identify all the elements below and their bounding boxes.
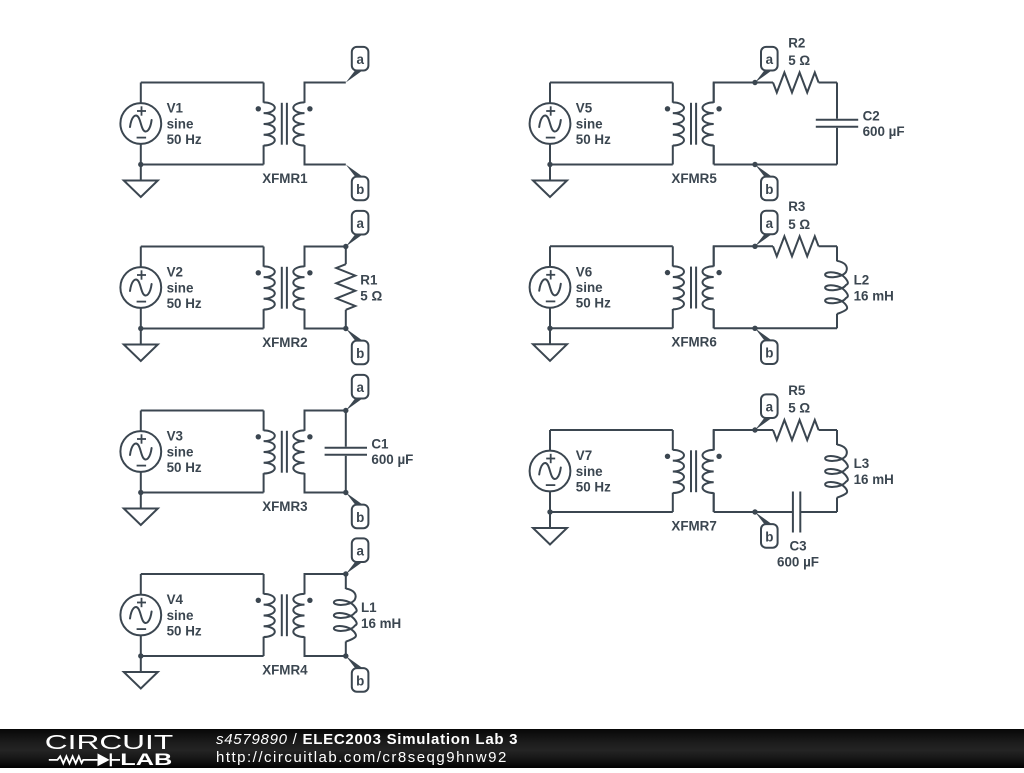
junction at ground <box>138 162 143 167</box>
ground <box>533 512 567 545</box>
svg-text:XFMR3: XFMR3 <box>262 499 307 514</box>
capacitor C2 (vertical) <box>816 83 858 165</box>
junction at ground <box>547 326 552 331</box>
wire top (source V3 to XFMR3) <box>141 410 264 412</box>
svg-text:a: a <box>356 380 364 395</box>
junction node a <box>343 244 348 249</box>
svg-text:a: a <box>766 52 774 67</box>
node b flag <box>755 165 778 201</box>
node b flag <box>346 165 369 201</box>
svg-text:a: a <box>766 400 774 415</box>
resistor R5 (horizontal) <box>755 420 837 440</box>
wire source top stub <box>140 411 142 432</box>
voltage source V3 <box>120 431 161 472</box>
ground <box>124 656 158 689</box>
svg-text:a: a <box>356 216 364 231</box>
ground <box>533 328 567 361</box>
voltage source V1 <box>120 103 161 144</box>
wire secondary top <box>305 247 346 267</box>
wire top (source V4 to XFMR4) <box>141 573 264 575</box>
svg-text:XFMR7: XFMR7 <box>671 518 716 533</box>
CircuitLab logo <box>0 729 200 769</box>
voltage source V5 <box>530 103 571 144</box>
wire source bottom stub <box>549 308 551 329</box>
wire bottom (node b to transformer) <box>714 511 755 513</box>
junction node b <box>752 162 757 167</box>
junction node a <box>343 408 348 413</box>
wire source top stub <box>549 83 551 104</box>
wire bottom right <box>755 164 837 166</box>
transformer XFMR1 <box>256 83 313 165</box>
node a flag <box>755 47 778 83</box>
svg-text:LAB: LAB <box>120 750 172 768</box>
junction at ground <box>547 509 552 514</box>
wire secondary bottom <box>305 637 346 656</box>
node b flag <box>346 493 369 529</box>
junction node b <box>752 326 757 331</box>
svg-text:XFMR1: XFMR1 <box>262 171 308 186</box>
wire secondary bottom <box>305 309 346 328</box>
wire source bottom stub <box>140 144 142 165</box>
voltage source V2 <box>120 267 161 308</box>
node b flag <box>755 328 778 364</box>
junction at ground <box>547 162 552 167</box>
voltage source V7 <box>530 451 571 492</box>
wire top (source V2 to XFMR2) <box>141 246 264 248</box>
wire secondary bottom <box>305 145 346 164</box>
wire bottom (source to transformer) <box>550 327 673 329</box>
transformer XFMR5 <box>665 83 722 165</box>
junction node b <box>343 326 348 331</box>
wire bottom (source to transformer) <box>141 328 264 330</box>
wire bottom (source to transformer) <box>141 164 264 166</box>
junction node a <box>752 80 757 85</box>
node a flag <box>755 211 778 247</box>
junction at ground <box>138 326 143 331</box>
junction at ground <box>138 490 143 495</box>
wire top (source V6 to XFMR6) <box>550 245 673 247</box>
junction at ground <box>138 653 143 658</box>
voltage source V4 <box>120 595 161 636</box>
wire secondary top <box>305 411 346 431</box>
transformer XFMR6 <box>665 246 722 328</box>
transformer XFMR7 <box>665 430 722 512</box>
node a flag <box>346 538 369 574</box>
svg-text:a: a <box>766 216 774 231</box>
wire source bottom stub <box>549 144 551 165</box>
svg-text:b: b <box>765 529 773 544</box>
wire secondary top <box>305 83 346 103</box>
inductor L2 (vertical) <box>825 246 848 328</box>
wire bottom (source to transformer) <box>550 511 673 513</box>
wire secondary top <box>305 574 346 594</box>
svg-text:b: b <box>356 673 364 688</box>
wire bottom (source to transformer) <box>141 492 264 494</box>
wire bottom (source to transformer) <box>550 164 673 166</box>
capacitor C3 (horizontal) <box>755 492 837 533</box>
footer url line 2 <box>216 750 508 766</box>
wire source bottom stub <box>140 635 142 656</box>
transformer XFMR4 <box>256 574 313 656</box>
ground <box>124 329 158 362</box>
wire bottom right <box>755 327 837 329</box>
node b flag <box>346 329 369 365</box>
node b flag <box>755 512 778 548</box>
resistor R1 (vertical) <box>336 247 355 329</box>
node b flag <box>346 656 369 692</box>
svg-text:XFMR4: XFMR4 <box>262 662 308 677</box>
wire source top stub <box>140 83 142 104</box>
node a flag <box>346 211 369 247</box>
junction node b <box>343 490 348 495</box>
svg-text:XFMR6: XFMR6 <box>671 335 716 350</box>
svg-text:b: b <box>356 182 364 197</box>
svg-text:XFMR2: XFMR2 <box>262 335 307 350</box>
junction node b <box>343 653 348 658</box>
wire secondary top <box>714 430 755 450</box>
wire secondary top <box>714 83 755 103</box>
wire bottom (source to transformer) <box>141 655 264 657</box>
wire source top stub <box>549 246 551 267</box>
svg-text:XFMR5: XFMR5 <box>671 171 717 186</box>
wire source bottom stub <box>140 308 142 329</box>
voltage source V6 <box>530 267 571 308</box>
inductor L1 (vertical) <box>334 574 357 656</box>
wire source top stub <box>140 574 142 595</box>
node a flag <box>755 394 778 430</box>
resistor R3 (horizontal) <box>755 236 837 256</box>
ground <box>124 165 158 198</box>
inductor L3 (vertical) <box>825 430 848 512</box>
junction node a <box>752 427 757 432</box>
svg-text:b: b <box>765 182 773 197</box>
wire top (source V1 to XFMR1) <box>141 82 264 84</box>
junction node b <box>752 509 757 514</box>
ground <box>533 165 567 198</box>
wire secondary bottom <box>305 473 346 492</box>
transformer XFMR2 <box>256 247 313 329</box>
wire top (source V7 to XFMR7) <box>550 429 673 431</box>
svg-text:b: b <box>765 346 773 361</box>
wire bottom (node b to transformer) <box>714 327 755 329</box>
transformer XFMR3 <box>256 411 313 493</box>
node a flag <box>346 47 369 83</box>
node a flag <box>346 375 369 411</box>
wire source bottom stub <box>140 472 142 493</box>
footer title text line 1 <box>216 732 518 748</box>
junction node a <box>343 571 348 576</box>
wire source top stub <box>140 247 142 268</box>
ground <box>124 493 158 526</box>
capacitor C1 (vertical) <box>325 411 367 493</box>
wire secondary top <box>714 246 755 266</box>
wire source bottom stub <box>549 491 551 512</box>
svg-text:a: a <box>356 52 364 67</box>
wire source top stub <box>549 430 551 451</box>
svg-text:a: a <box>356 544 364 559</box>
resistor R2 (horizontal) <box>755 73 837 93</box>
svg-text:b: b <box>356 510 364 525</box>
junction node a <box>752 244 757 249</box>
svg-text:b: b <box>356 346 364 361</box>
wire top (source V5 to XFMR5) <box>550 82 673 84</box>
wire bottom (node b to transformer) <box>714 164 755 166</box>
